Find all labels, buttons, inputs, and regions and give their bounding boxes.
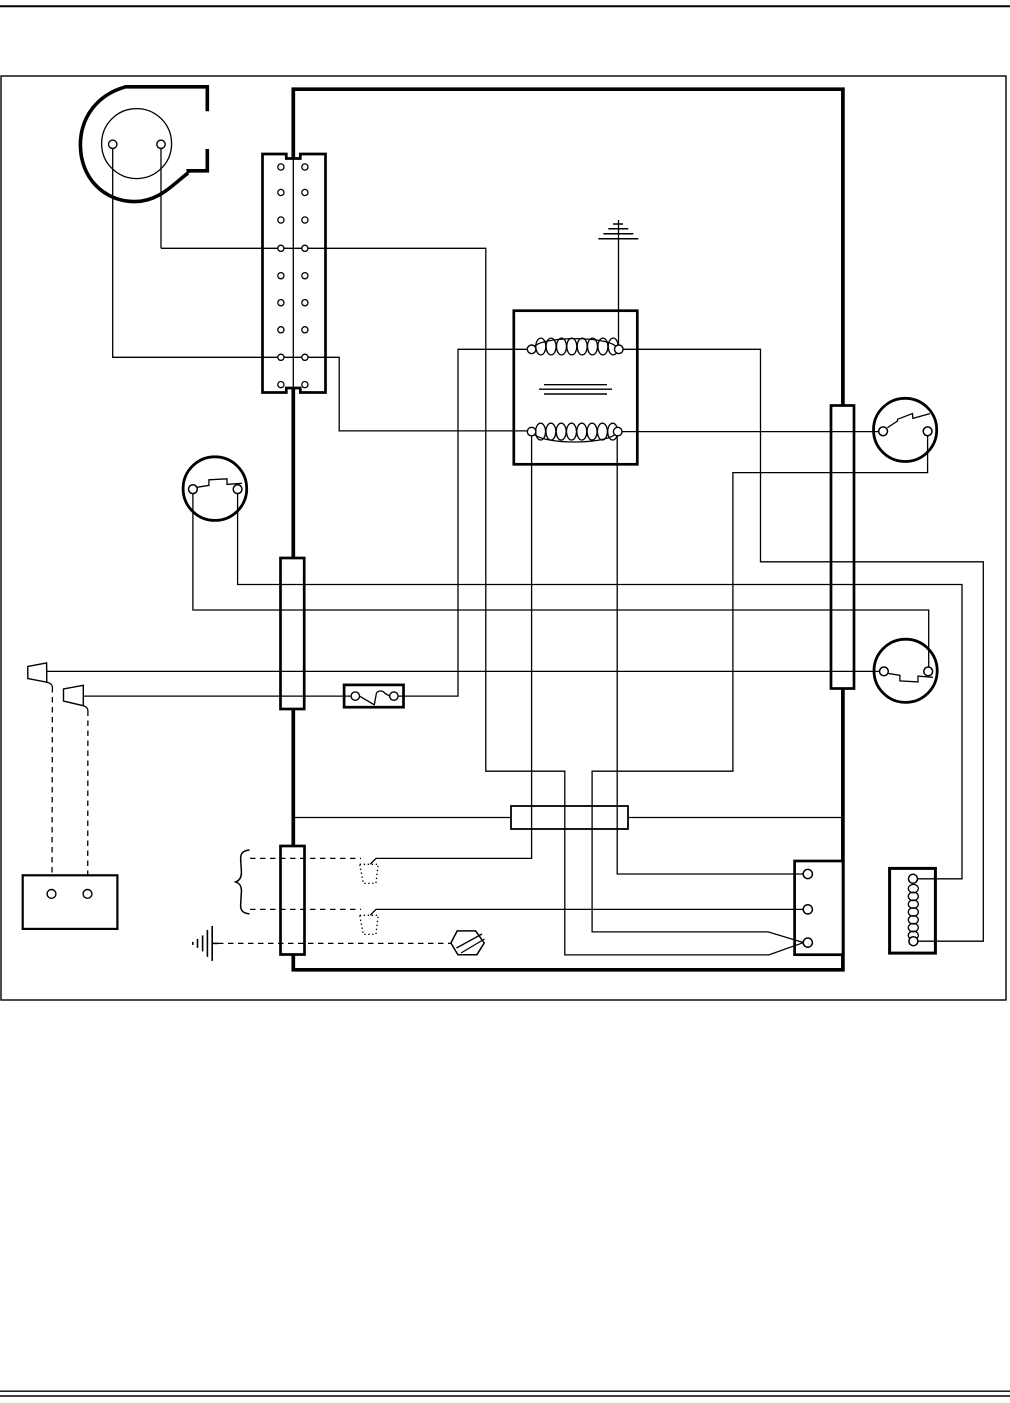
blower motor B1 terminals: [109, 140, 166, 148]
wire blower right terminal to strip row4 and on to node down: [161, 149, 803, 955]
connector bar J2 (right): [831, 406, 854, 689]
wire SW1 left contact to SW3 right contact: [193, 494, 929, 667]
plug P2: [360, 915, 379, 934]
brace: [236, 850, 250, 914]
switch SW2 body (top right limit switch): [874, 398, 937, 461]
transformer T1 box: [514, 311, 638, 465]
igniter E1 hexagon: [451, 931, 485, 955]
top rule: [0, 5, 1010, 7]
wire dashed brace to plug P2: [250, 908, 361, 910]
wire bus to resistor bar left: [294, 817, 511, 819]
horn H2: [64, 685, 88, 710]
transformer T1 core: [539, 385, 612, 394]
fuse F1 box: [344, 685, 403, 707]
wire transformer primary left to fuse: [398, 349, 527, 696]
resistor bar R1 (horizontal): [511, 806, 628, 829]
wire dashed brace to plug P1: [250, 857, 361, 859]
connector box J4 (bottom right): [795, 861, 843, 955]
chassis ground G2 (bottom left): [193, 926, 218, 961]
heater coil HR1 box: [890, 868, 936, 953]
wire transformer primary right to heater coil bottom: [623, 349, 983, 941]
switch SW3 contacts and lever: [880, 667, 933, 682]
wire dashed ground to igniter: [218, 942, 451, 944]
switch SW1 body (left limit switch): [183, 457, 247, 521]
bottom rules: [0, 1390, 1010, 1392]
transformer T1 secondary terminals: [527, 427, 622, 436]
wire dashed horn H2 to thermostat: [87, 711, 89, 890]
wire blower left terminal to strip row8 to transformer secondary left: [113, 149, 528, 431]
connector bar J3 (left bottom): [281, 846, 305, 955]
switch SW1 contacts and lever: [189, 479, 243, 494]
switch SW3 body (bottom right limit switch): [874, 639, 937, 702]
wire resistor bar right to bus: [628, 817, 842, 819]
transformer T1 primary terminals: [527, 345, 623, 354]
heater coil HR1 winding: [908, 884, 918, 939]
wire horn H1 to SW3 left contact: [47, 670, 880, 672]
blower motor B1 housing: [80, 87, 207, 202]
switch SW2 contacts and lever: [879, 414, 932, 436]
horn H1: [28, 663, 53, 687]
connector box J4 pins: [803, 869, 812, 947]
transformer T1 primary winding: [535, 338, 618, 355]
wire dashed horn H1 to thermostat: [51, 687, 53, 889]
wire main power bus loop: [293, 89, 843, 970]
wire SW2 right contact to J4 bottom pin: [592, 436, 928, 943]
wire earth ground to transformer primary right: [618, 220, 620, 345]
fuse F1 element: [351, 691, 398, 705]
wire SW1 right contact to heater coil top: [238, 494, 962, 879]
heater coil HR1 terminals: [909, 874, 918, 945]
wire plug P2 to J4 middle pin: [370, 909, 803, 915]
thermostat TH1: [23, 875, 118, 929]
terminal strip TB1: [263, 154, 326, 393]
wire transformer secondary left down to plug P1: [370, 436, 531, 864]
connector bar J1 (left middle): [281, 558, 305, 709]
border frame: [1, 76, 1006, 1000]
wire transformer secondary right to SW2 left contact: [622, 431, 879, 433]
earth ground G1 (top): [598, 224, 638, 239]
plug P1: [360, 864, 379, 883]
terminal strip TB1 screws: [278, 164, 308, 388]
wire fuse to horn H2: [83, 695, 351, 697]
transformer T1 secondary winding: [535, 423, 618, 442]
wire transformer secondary right down to J4 top pin: [617, 436, 803, 874]
